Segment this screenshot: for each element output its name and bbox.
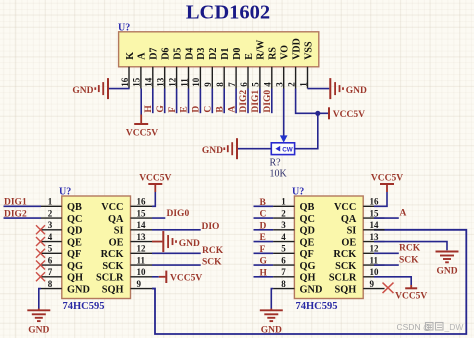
- svg-text:2: 2: [286, 82, 296, 87]
- wire right U? pin8 GND down: [271, 289, 273, 309]
- svg-text:DIO: DIO: [202, 222, 220, 232]
- svg-text:16: 16: [137, 197, 147, 207]
- svg-text:DIG0: DIG0: [167, 209, 190, 219]
- svg-text:B: B: [215, 106, 225, 113]
- junction VDD/pot/VCC5V: [315, 111, 320, 116]
- wire LCD pin12 D5 / net F: [176, 89, 178, 114]
- wire LCD pin15 A down: [140, 89, 142, 115]
- svg-text:U?: U?: [118, 23, 130, 34]
- svg-text:6: 6: [48, 255, 53, 265]
- svg-text:D1: D1: [220, 48, 231, 60]
- wire LCD pin11 D4 / net E: [188, 89, 190, 114]
- svg-text:4: 4: [263, 82, 273, 87]
- wire pot left to GND: [238, 148, 271, 150]
- wire net E to right U? pin4: [254, 241, 274, 243]
- svg-text:D7: D7: [149, 48, 160, 60]
- svg-text:K: K: [125, 52, 136, 60]
- power VCC5V right of LCD: [329, 107, 365, 120]
- wire left U? pin8 GND down: [39, 289, 41, 309]
- svg-text:3: 3: [275, 82, 285, 87]
- wire left U? pin16 VCC up: [152, 192, 155, 206]
- shift register U? 74HC595 right body: [292, 187, 363, 312]
- ground GND under left 74HC595: [27, 309, 50, 336]
- svg-text:D2: D2: [208, 48, 219, 60]
- wire LCD pin4 RS / net DIG0: [271, 89, 273, 114]
- svg-text:R?: R?: [270, 157, 282, 168]
- svg-text:10: 10: [191, 77, 201, 87]
- svg-text:14: 14: [370, 220, 380, 230]
- svg-text:VCC5V: VCC5V: [395, 291, 427, 301]
- svg-text:QE: QE: [300, 237, 315, 248]
- ground GND under right 74HC595: [260, 309, 283, 336]
- wire LCD pin10 D3 / net D: [199, 89, 201, 114]
- svg-text:9: 9: [137, 279, 142, 289]
- svg-text:B: B: [260, 198, 267, 208]
- wire right U? pin15 QA / net A: [374, 217, 399, 219]
- svg-text:VCC: VCC: [334, 202, 356, 213]
- svg-text:A: A: [137, 52, 148, 60]
- svg-text:QA: QA: [108, 214, 124, 225]
- wire right U? pin11 SCK: [374, 264, 399, 266]
- svg-text:OE: OE: [109, 237, 124, 248]
- svg-text:10K: 10K: [270, 168, 288, 179]
- svg-text:4: 4: [48, 232, 53, 242]
- wire net DIG1 to left U? pin1: [4, 205, 42, 207]
- wire LCD pin5 R/W / net DIG1: [259, 89, 261, 114]
- wire net G to right U? pin6: [254, 264, 274, 266]
- svg-text:SI: SI: [347, 226, 357, 237]
- no-connect X on right U? pin9 SQH: [383, 283, 394, 294]
- svg-text:5: 5: [48, 244, 53, 254]
- wire left U? pin11 SCK: [152, 264, 201, 266]
- svg-text:VCC5V: VCC5V: [139, 173, 171, 183]
- svg-text:2: 2: [281, 208, 286, 218]
- svg-text:U?: U?: [59, 187, 71, 198]
- wire LCD pin3 VO to potentiometer wiper: [283, 89, 285, 137]
- svg-text:12: 12: [370, 244, 380, 254]
- svg-text:QG: QG: [67, 261, 83, 272]
- svg-text:U?: U?: [292, 187, 304, 198]
- right 74HC595 pin stubs and numbers: [273, 197, 384, 289]
- wire LCD pin6 E / net DIG2: [247, 89, 249, 114]
- svg-text:SQH: SQH: [102, 284, 124, 295]
- svg-text:VCC5V: VCC5V: [371, 173, 403, 183]
- svg-text:15: 15: [132, 77, 142, 87]
- svg-text:E: E: [244, 53, 255, 60]
- wire LCD pin14 D7 / net H: [152, 89, 154, 114]
- svg-text:SCK: SCK: [335, 261, 356, 272]
- svg-text:5: 5: [281, 244, 286, 254]
- resistor R1 potentiometer R? 10K: [270, 143, 295, 180]
- svg-text:SCLR: SCLR: [96, 273, 124, 284]
- svg-text:SQH: SQH: [335, 284, 357, 295]
- svg-text:DIG0: DIG0: [263, 90, 273, 113]
- no-connect X on left U? pin5: [36, 249, 45, 258]
- svg-text:D5: D5: [172, 48, 183, 60]
- svg-text:GND: GND: [67, 284, 90, 295]
- svg-text:A: A: [227, 106, 237, 113]
- svg-text:6: 6: [281, 255, 286, 265]
- svg-text:11: 11: [370, 255, 379, 265]
- svg-text:QF: QF: [67, 249, 81, 260]
- svg-text:7: 7: [227, 82, 237, 87]
- svg-text:8: 8: [281, 279, 286, 289]
- svg-text:QA: QA: [341, 214, 357, 225]
- wire right U? pin16 VCC up: [374, 192, 387, 206]
- wire LCD pin2 VDD to VCC5V: [296, 89, 329, 114]
- wire net B to right U? pin1: [254, 205, 274, 207]
- svg-text:4: 4: [281, 232, 286, 242]
- wire right U? pin12 RCK: [374, 252, 399, 254]
- svg-text:QB: QB: [300, 202, 315, 213]
- wire LCD pin16 K to GND: [109, 88, 130, 90]
- power VCC5V under LCD pin15: [126, 115, 158, 139]
- shift register U? 74HC595 left body: [59, 187, 131, 312]
- svg-text:12: 12: [137, 244, 147, 254]
- svg-text:R/W: R/W: [256, 40, 267, 60]
- wire net H to right U? pin7: [254, 276, 274, 278]
- svg-text:74HC595: 74HC595: [296, 301, 338, 312]
- svg-text:QE: QE: [67, 237, 82, 248]
- wire left U? pin15 QA / net DIG0: [152, 217, 165, 219]
- wire LCD pin7 D0 / net A: [235, 89, 237, 114]
- svg-text:QC: QC: [300, 214, 315, 225]
- wire left U? pin13 OE to GND: [152, 241, 162, 243]
- svg-text:VCC5V: VCC5V: [126, 128, 158, 138]
- svg-text:11: 11: [137, 255, 146, 265]
- svg-text:QC: QC: [67, 214, 82, 225]
- svg-text:7: 7: [48, 267, 53, 277]
- svg-text:RCK: RCK: [333, 249, 356, 260]
- svg-text:15: 15: [370, 208, 380, 218]
- LCD module U? body: [118, 23, 319, 67]
- svg-text:OE: OE: [341, 237, 356, 248]
- svg-text:H: H: [260, 268, 268, 278]
- svg-text:C: C: [260, 210, 267, 220]
- svg-text:VO: VO: [280, 45, 291, 60]
- svg-text:7: 7: [281, 267, 286, 277]
- ground GND near pot: [202, 138, 237, 159]
- LCD pins 16-1 stubs with numbers: [120, 67, 308, 89]
- svg-text:D0: D0: [232, 48, 243, 60]
- svg-text:16: 16: [370, 197, 380, 207]
- svg-text:D6: D6: [161, 48, 172, 60]
- svg-text:GND: GND: [179, 239, 200, 249]
- svg-text:D: D: [192, 106, 202, 113]
- svg-text:1: 1: [281, 197, 286, 207]
- wire net F to right U? pin5: [254, 252, 274, 254]
- svg-text:14: 14: [144, 77, 154, 87]
- svg-text:DIG1: DIG1: [251, 90, 261, 113]
- svg-text:D4: D4: [184, 48, 195, 60]
- svg-text:2: 2: [48, 208, 53, 218]
- svg-text:DIG2: DIG2: [239, 90, 249, 113]
- svg-text:10: 10: [370, 267, 380, 277]
- svg-text:8: 8: [48, 279, 53, 289]
- svg-text:RCK: RCK: [101, 249, 124, 260]
- svg-text:GND: GND: [346, 86, 367, 96]
- wire left U? pin9 SQH to right U? pin14 SI: [152, 230, 466, 334]
- svg-text:CW: CW: [282, 146, 293, 153]
- svg-text:RCK: RCK: [202, 246, 224, 256]
- wire net D to right U? pin3: [254, 229, 274, 231]
- ground GND right of LCD: [330, 78, 367, 99]
- svg-text:VCC5V: VCC5V: [170, 274, 202, 284]
- svg-text:13: 13: [370, 232, 380, 242]
- wire LCD pin8 D1 / net B: [223, 89, 225, 114]
- wire left U? pin12 RCK: [152, 252, 201, 254]
- wire LCD pin1 VSS to GND: [308, 88, 330, 90]
- svg-text:13: 13: [137, 232, 147, 242]
- svg-text:8: 8: [215, 82, 225, 87]
- svg-text:D3: D3: [196, 48, 207, 60]
- svg-text:D: D: [260, 221, 267, 231]
- svg-text:QF: QF: [300, 249, 314, 260]
- svg-text:SCLR: SCLR: [329, 273, 357, 284]
- wire left U? pin14 SI / net DIO: [152, 229, 201, 231]
- no-connect X on left U? pin4: [36, 237, 45, 246]
- left 74HC595 pin stubs and numbers: [41, 197, 152, 289]
- svg-text:15: 15: [137, 208, 147, 218]
- svg-text:14: 14: [137, 220, 147, 230]
- svg-text:9: 9: [370, 279, 375, 289]
- svg-text:SI: SI: [114, 226, 124, 237]
- wire LCD pin9 D2 / net C: [211, 89, 213, 114]
- svg-text:QB: QB: [67, 202, 82, 213]
- svg-text:GND: GND: [436, 267, 457, 277]
- svg-text:GND: GND: [28, 325, 49, 335]
- svg-text:QG: QG: [300, 261, 316, 272]
- wire left U? pin10 SCLR to VCC5V: [152, 276, 159, 278]
- wire right U? pin10 SCLR to VCC5V: [374, 277, 411, 285]
- no-connect X on left U? pin7: [36, 272, 45, 281]
- svg-text:6: 6: [239, 82, 249, 87]
- svg-text:16: 16: [120, 77, 130, 87]
- svg-text:LCD1602: LCD1602: [186, 2, 270, 24]
- svg-text:9: 9: [203, 82, 213, 87]
- svg-text:74HC595: 74HC595: [63, 301, 105, 312]
- svg-text:E: E: [260, 233, 266, 243]
- no-connect X on left U? pin3: [36, 225, 45, 234]
- ground GND at left U? pin13: [163, 231, 200, 252]
- svg-text:SCK: SCK: [202, 258, 222, 268]
- ground GND left of LCD: [72, 78, 108, 99]
- svg-text:13: 13: [156, 77, 166, 87]
- svg-text:VSS: VSS: [303, 41, 314, 60]
- svg-text:VCC: VCC: [101, 202, 123, 213]
- svg-text:GND: GND: [300, 284, 323, 295]
- svg-text:QH: QH: [67, 273, 83, 284]
- power VCC5V above left 74HC595: [139, 173, 171, 192]
- svg-text:G: G: [156, 105, 166, 113]
- wire net C to right U? pin2: [254, 217, 274, 219]
- power VCC5V at right U? pin10: [395, 285, 427, 301]
- svg-text:QD: QD: [67, 226, 82, 237]
- power VCC5V above right 74HC595: [371, 173, 403, 192]
- svg-text:3: 3: [281, 220, 286, 230]
- svg-text:QD: QD: [300, 226, 315, 237]
- svg-text:RS: RS: [268, 47, 279, 60]
- svg-text:DIG1: DIG1: [4, 198, 27, 208]
- svg-text:E: E: [180, 106, 190, 112]
- svg-text:GND: GND: [202, 146, 223, 156]
- svg-text:10: 10: [137, 267, 147, 277]
- wire pot right to VCC5V junction: [295, 113, 318, 148]
- svg-text:F: F: [168, 107, 178, 113]
- svg-text:GND: GND: [72, 86, 93, 96]
- svg-text:VDD: VDD: [291, 38, 302, 60]
- no-connect X on left U? pin6: [36, 261, 45, 270]
- svg-text:DIG2: DIG2: [4, 209, 27, 219]
- svg-text:A: A: [400, 209, 407, 219]
- power VCC5V at left U? pin10: [159, 271, 203, 284]
- svg-text:12: 12: [167, 77, 177, 87]
- wire right U? pin13 OE to GND: [374, 242, 447, 251]
- svg-text:QH: QH: [300, 273, 316, 284]
- svg-text:SCK: SCK: [399, 255, 419, 265]
- wire LCD pin13 D6 / net G: [164, 89, 166, 114]
- svg-text:H: H: [144, 105, 154, 113]
- svg-text:VCC5V: VCC5V: [333, 110, 365, 120]
- ground GND right of right 74HC595: [436, 252, 459, 277]
- svg-text:G: G: [260, 257, 268, 267]
- svg-text:SCK: SCK: [102, 261, 123, 272]
- svg-text:F: F: [260, 245, 266, 255]
- svg-text:5: 5: [251, 82, 261, 87]
- wire net DIG2 to left U? pin2: [4, 217, 42, 219]
- svg-text:C: C: [204, 106, 214, 113]
- svg-text:1: 1: [298, 82, 308, 87]
- svg-text:RCK: RCK: [399, 244, 421, 254]
- svg-text:GND: GND: [261, 325, 282, 335]
- svg-text:3: 3: [48, 220, 53, 230]
- svg-text:_DW: _DW: [444, 322, 464, 332]
- svg-text:1: 1: [48, 197, 53, 207]
- svg-text:11: 11: [179, 78, 189, 87]
